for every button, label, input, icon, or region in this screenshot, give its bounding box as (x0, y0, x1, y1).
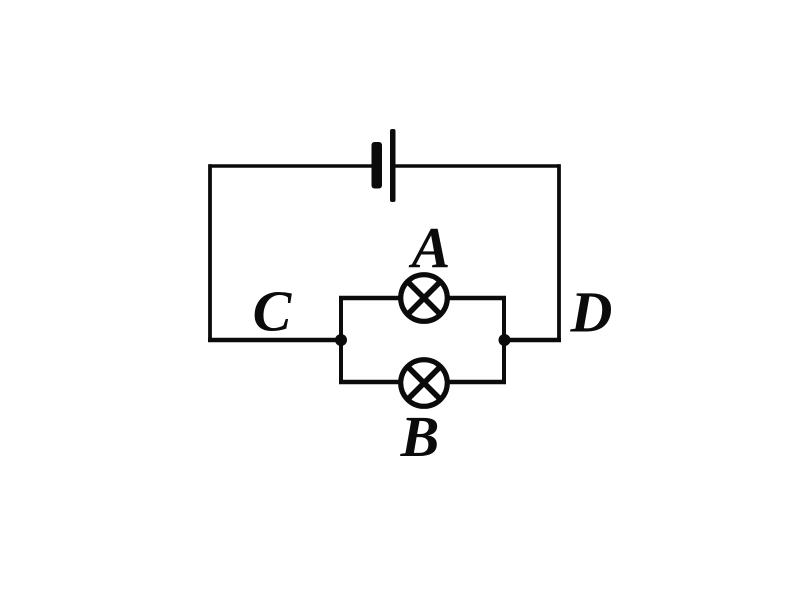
wire: parallel branch left vertical (339, 296, 343, 384)
wire: top-right horizontal from battery to right corner (395, 164, 561, 168)
wire: bottom-left horizontal to node C junction (208, 338, 341, 343)
wire: bottom-right horizontal from node D junction (504, 338, 561, 343)
wire: left vertical of outer loop (208, 164, 212, 341)
battery V1 negative plate (short thick) (372, 142, 383, 189)
lamp A symbol (circle with X) (401, 275, 448, 322)
wire: top branch right segment from lamp A (448, 296, 506, 300)
lamp B symbol (circle with X) (401, 360, 448, 407)
junction node C (dot) (335, 334, 347, 346)
svg-text:A: A (409, 215, 451, 280)
wire: right vertical of outer loop (557, 164, 561, 342)
svg-text:B: B (400, 404, 440, 469)
wire: top branch left segment to lamp A (339, 296, 400, 300)
battery V1 positive plate (long thin) (390, 129, 396, 202)
wire: top-left horizontal from left corner to battery (209, 164, 373, 168)
wire: bottom branch right segment from lamp B (448, 380, 506, 384)
wire: parallel branch right vertical (502, 296, 506, 384)
wire: bottom branch left segment to lamp B (339, 380, 400, 384)
junction node D (dot) (499, 334, 511, 346)
svg-text:D: D (570, 280, 613, 345)
svg-text:C: C (253, 279, 293, 344)
